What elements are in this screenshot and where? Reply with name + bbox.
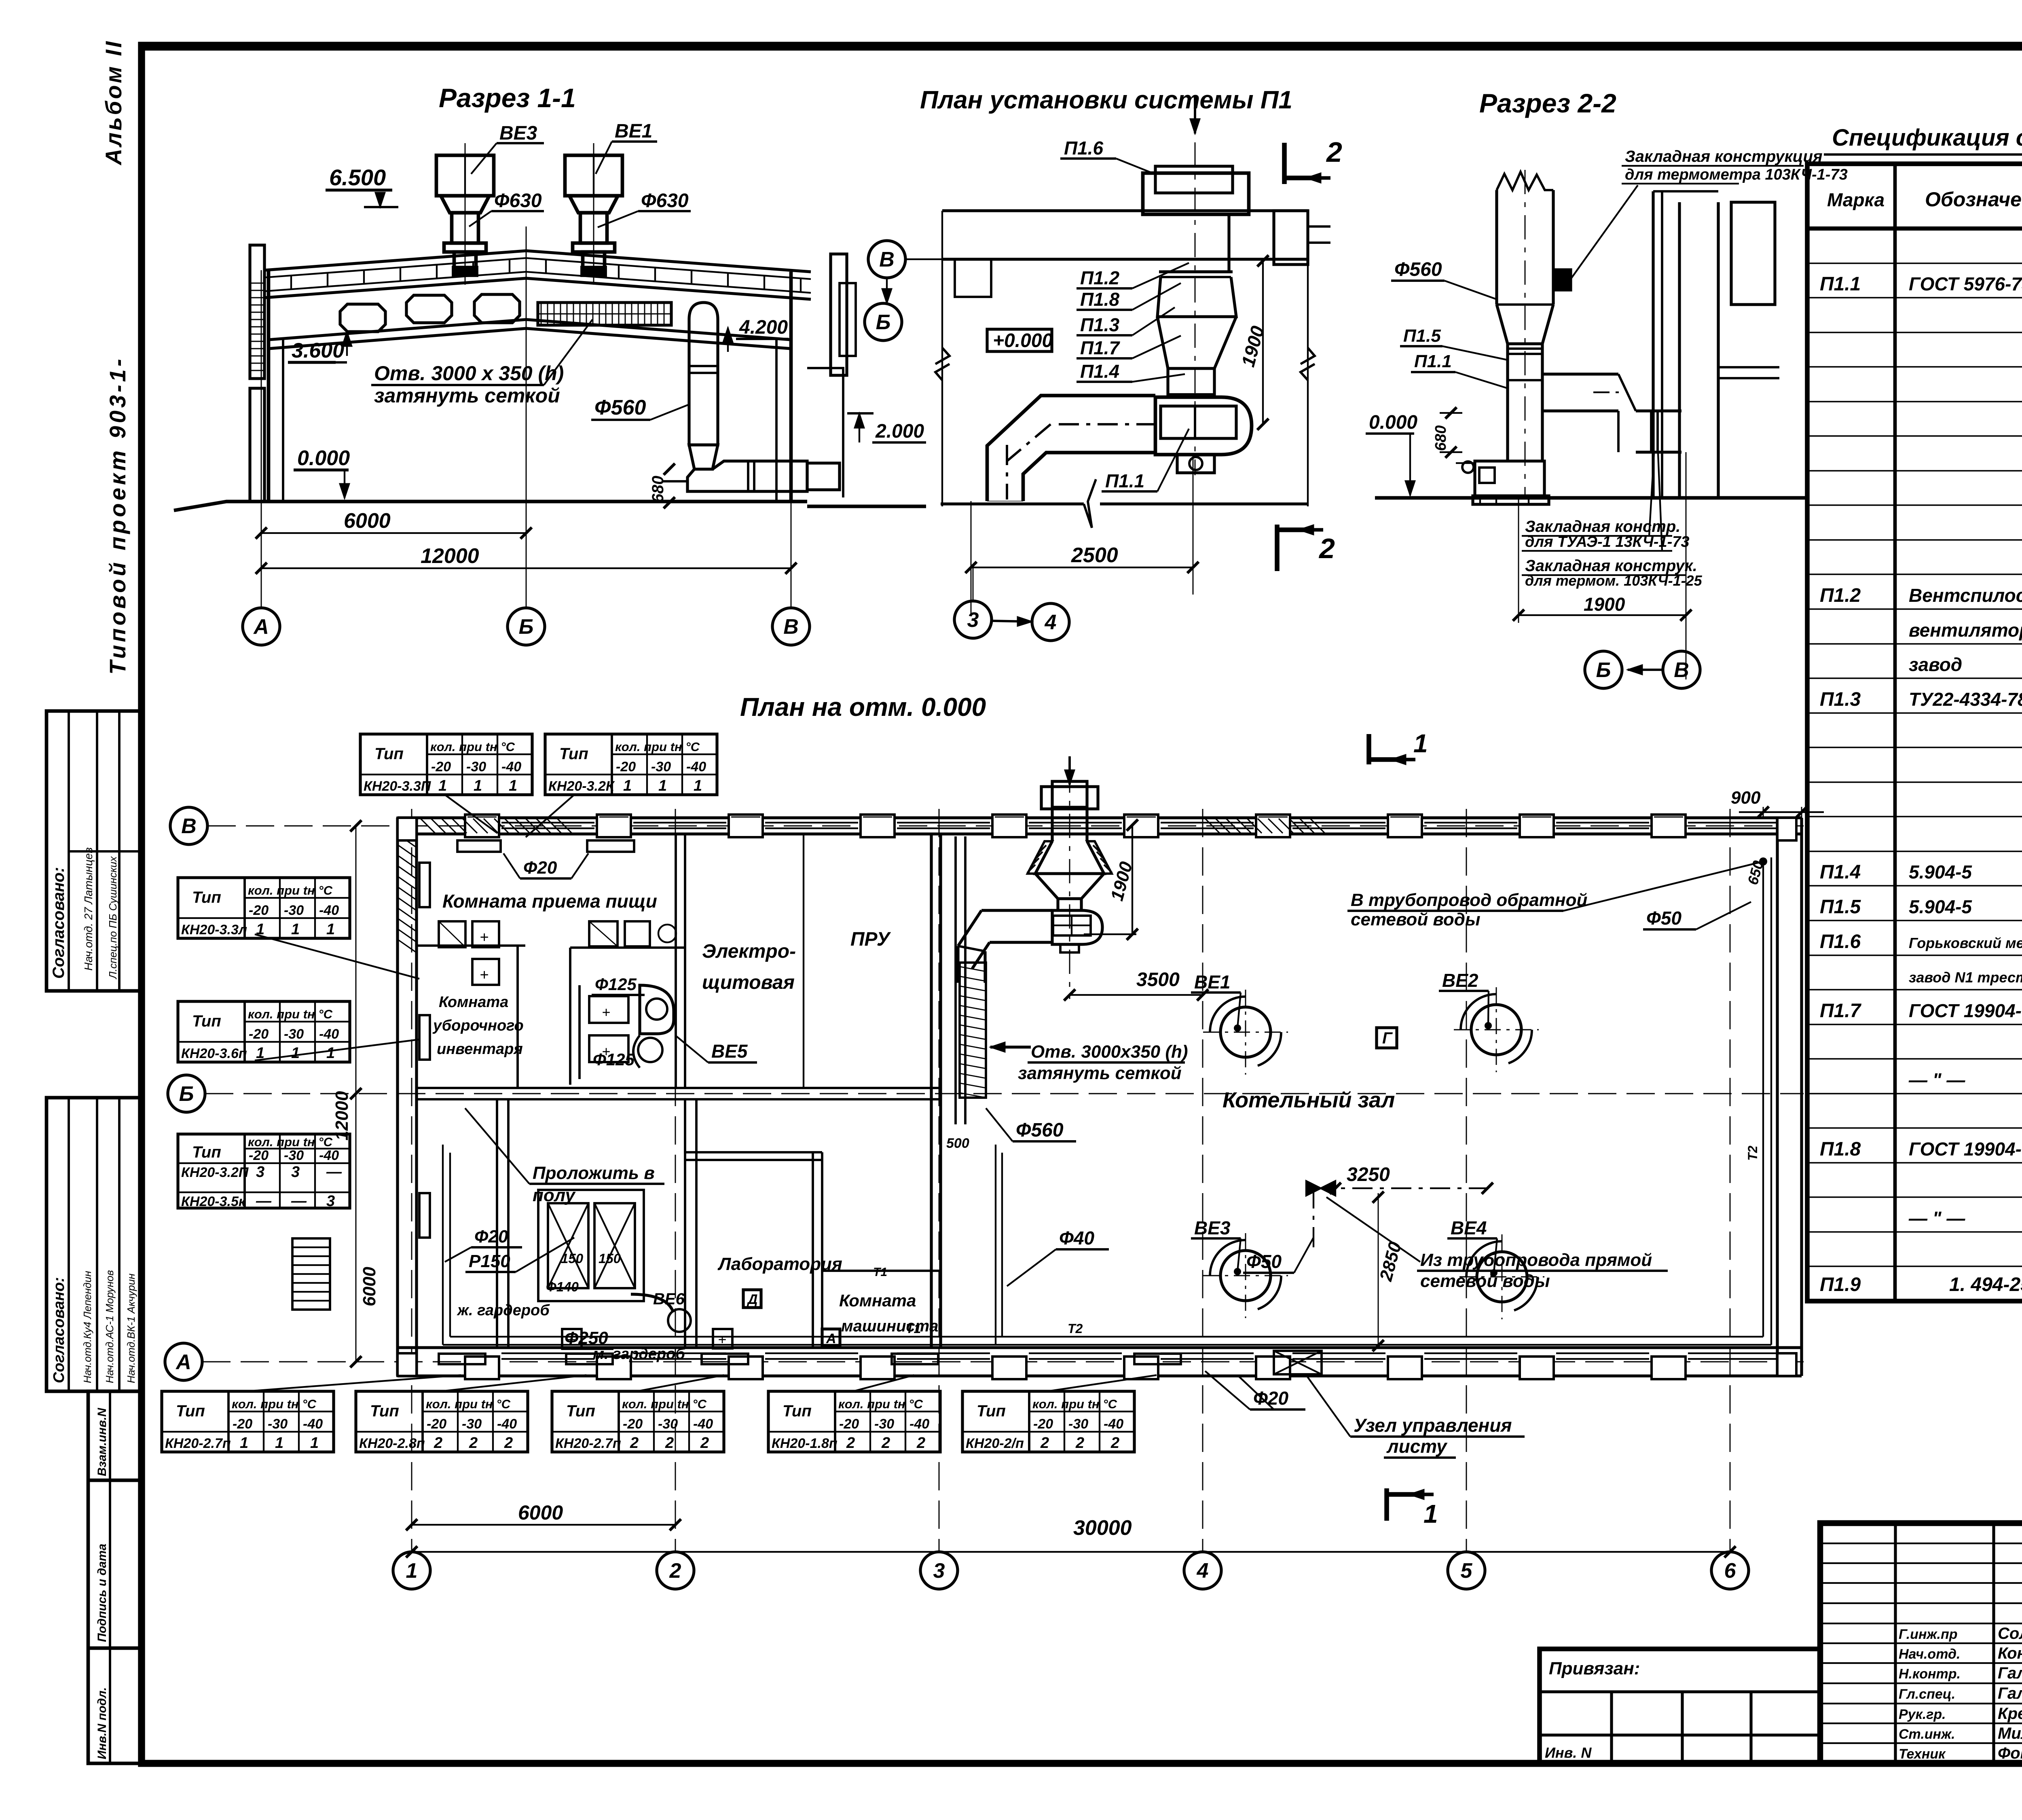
svg-text:Ф125: Ф125: [595, 975, 637, 994]
svg-text:Лаборатория: Лаборатория: [717, 1254, 842, 1274]
svg-text:П1.4: П1.4: [1820, 861, 1861, 883]
svg-text:2: 2: [1318, 533, 1335, 564]
svg-text:КН20-2.7п: КН20-2.7п: [555, 1436, 621, 1451]
svg-text:Б: Б: [519, 615, 534, 639]
svg-text:Подпись и дата: Подпись и дата: [95, 1544, 109, 1642]
svg-text:2: 2: [1040, 1435, 1049, 1452]
svg-text:кол. при tн °С: кол. при tн °С: [430, 740, 515, 754]
svg-text:кол. при tн °С: кол. при tн °С: [248, 1135, 333, 1149]
svg-text:Б: Б: [876, 311, 891, 334]
svg-text:2: 2: [665, 1435, 674, 1452]
svg-text:Л.спец.по ПБ Сушинских: Л.спец.по ПБ Сушинских: [107, 856, 119, 980]
svg-text:Инв.N подл.: Инв.N подл.: [95, 1687, 109, 1759]
svg-text:Тип: Тип: [977, 1402, 1006, 1420]
svg-text:12000: 12000: [421, 544, 479, 568]
svg-text:План установки системы П1: План установки системы П1: [920, 86, 1292, 114]
svg-text:—: —: [326, 1164, 342, 1181]
svg-text:Ф125: Ф125: [593, 1050, 635, 1069]
svg-text:для термометра 103КЧ-1-73: для термометра 103КЧ-1-73: [1625, 166, 1848, 183]
svg-text:для ТУАЭ-1 13КЧ-1-73: для ТУАЭ-1 13КЧ-1-73: [1525, 533, 1690, 550]
svg-text:2: 2: [669, 1559, 681, 1583]
svg-text:P150: P150: [469, 1251, 510, 1271]
svg-text:П1.1: П1.1: [1820, 273, 1861, 295]
svg-text:П1.6: П1.6: [1064, 138, 1103, 159]
svg-text:Ф50: Ф50: [1646, 908, 1681, 929]
svg-text:листу: листу: [1386, 1436, 1448, 1457]
svg-text:-40: -40: [693, 1416, 713, 1432]
svg-text:КН20-2.8п: КН20-2.8п: [359, 1436, 425, 1451]
svg-text:+: +: [718, 1331, 726, 1348]
svg-text:Обозначение: Обозначение: [1925, 188, 2022, 211]
svg-text:КН20-3.2К: КН20-3.2К: [548, 779, 615, 794]
svg-text:3500: 3500: [1136, 969, 1180, 990]
svg-text:1: 1: [291, 921, 300, 938]
svg-text:Ф140: Ф140: [546, 1279, 579, 1294]
svg-text:Милова: Милова: [1998, 1725, 2022, 1742]
svg-text:2: 2: [1326, 136, 1342, 168]
svg-text:1: 1: [658, 777, 667, 794]
svg-text:680: 680: [1432, 425, 1449, 451]
svg-text:Т2: Т2: [1745, 1145, 1760, 1161]
svg-text:1: 1: [1423, 1499, 1438, 1528]
svg-text:уборочного: уборочного: [432, 1017, 524, 1034]
svg-text:4: 4: [1045, 611, 1057, 634]
svg-text:сетевой воды: сетевой воды: [1420, 1271, 1550, 1291]
svg-text:Д: Д: [747, 1292, 758, 1307]
svg-text:3: 3: [291, 1164, 300, 1181]
svg-text:680: 680: [649, 476, 667, 503]
svg-text:+: +: [567, 1331, 575, 1348]
svg-text:ВЕ2: ВЕ2: [1442, 970, 1478, 991]
svg-text:Альбом II: Альбом II: [101, 39, 126, 166]
svg-text:Тип: Тип: [192, 889, 221, 906]
svg-text:1: 1: [240, 1435, 248, 1452]
svg-text:1: 1: [406, 1559, 418, 1583]
svg-text:Тип: Тип: [559, 745, 588, 763]
svg-text:КН20-1.8п: КН20-1.8п: [772, 1436, 838, 1451]
svg-text:2: 2: [1110, 1435, 1119, 1452]
svg-text:Спецификация отопительно-венти: Спецификация отопительно-вентиляционных …: [1832, 125, 2022, 151]
svg-text:ГОСТ 19904-74: ГОСТ 19904-74: [1909, 1139, 2022, 1160]
svg-text:1: 1: [438, 777, 447, 794]
svg-text:ГОСТ 19904-74: ГОСТ 19904-74: [1909, 1000, 2022, 1021]
svg-text:3: 3: [326, 1193, 335, 1210]
svg-text:Инв. N: Инв. N: [1545, 1744, 1592, 1761]
svg-text:-20: -20: [1033, 1416, 1053, 1432]
svg-text:П1.1: П1.1: [1105, 470, 1144, 491]
svg-text:кол. при tн °С: кол. при tн °С: [615, 740, 700, 754]
svg-text:6000: 6000: [344, 509, 391, 533]
svg-text:-30: -30: [658, 1416, 678, 1432]
svg-text:Т1: Т1: [906, 1321, 921, 1336]
svg-text:П1.8: П1.8: [1080, 289, 1119, 310]
svg-text:—: —: [291, 1193, 307, 1210]
svg-text:Тип: Тип: [566, 1402, 595, 1420]
svg-text:вентиляторный: вентиляторный: [1909, 620, 2022, 641]
svg-text:Тип: Тип: [783, 1402, 812, 1420]
svg-text:Нач.отд.: Нач.отд.: [1899, 1646, 1960, 1662]
svg-text:1: 1: [326, 1045, 335, 1062]
svg-text:6000: 6000: [360, 1267, 379, 1306]
svg-text:-40: -40: [686, 759, 706, 775]
svg-text:П1.4: П1.4: [1080, 361, 1119, 382]
svg-text:П1.8: П1.8: [1820, 1139, 1861, 1160]
svg-text:Тип: Тип: [374, 745, 404, 763]
svg-text:П1.1: П1.1: [1414, 351, 1452, 371]
svg-text:1: 1: [275, 1435, 283, 1452]
svg-text:Г: Г: [1382, 1029, 1393, 1047]
svg-text:Ф560: Ф560: [594, 396, 646, 419]
svg-text:Узел управления: Узел управления: [1354, 1415, 1512, 1436]
svg-text:ВЕ1: ВЕ1: [1194, 971, 1230, 993]
svg-text:Нач.отд.Ку4 Лепендин: Нач.отд.Ку4 Лепендин: [81, 1271, 93, 1383]
svg-text:Ф20: Ф20: [474, 1227, 508, 1246]
svg-text:Нач.отд. 27 Латынцев: Нач.отд. 27 Латынцев: [82, 847, 95, 971]
svg-text:6.500: 6.500: [329, 165, 386, 190]
svg-text:Креймер: Креймер: [1998, 1705, 2022, 1723]
svg-text:-30: -30: [284, 1026, 304, 1042]
svg-text:для термом. 103КЧ-1-25: для термом. 103КЧ-1-25: [1525, 572, 1703, 589]
svg-text:П1.2: П1.2: [1080, 267, 1119, 288]
svg-text:-30: -30: [268, 1416, 288, 1432]
svg-text:Из трубопровода прямой: Из трубопровода прямой: [1420, 1250, 1652, 1270]
svg-text:кол. при tн °С: кол. при tн °С: [426, 1397, 511, 1411]
svg-text:Согласовано:: Согласовано:: [51, 1277, 68, 1383]
svg-text:-30: -30: [1068, 1416, 1088, 1432]
svg-text:-30: -30: [466, 759, 486, 775]
svg-text:2.000: 2.000: [875, 421, 924, 442]
svg-text:Проложить в: Проложить в: [533, 1163, 655, 1183]
svg-text:А: А: [253, 615, 269, 639]
svg-text:-20: -20: [249, 1148, 269, 1163]
svg-text:затянуть сеткой: затянуть сеткой: [374, 384, 560, 407]
svg-text:Рук.гр.: Рук.гр.: [1899, 1707, 1946, 1722]
svg-text:Разрез 1-1: Разрез 1-1: [439, 83, 576, 113]
svg-text:5: 5: [1461, 1559, 1473, 1583]
svg-text:Разрез 2-2: Разрез 2-2: [1479, 88, 1616, 118]
svg-text:4.200: 4.200: [739, 317, 788, 338]
svg-text:П1.2: П1.2: [1820, 585, 1861, 606]
svg-text:П1.5: П1.5: [1403, 326, 1441, 346]
svg-text:Техник: Техник: [1899, 1746, 1946, 1762]
svg-text:2: 2: [434, 1435, 442, 1452]
svg-text:-30: -30: [462, 1416, 482, 1432]
svg-text:П1.9: П1.9: [1820, 1274, 1861, 1295]
svg-text:1: 1: [291, 1045, 300, 1062]
svg-text:0.000: 0.000: [1369, 412, 1417, 433]
svg-text:П1.7: П1.7: [1080, 337, 1120, 358]
svg-text:-20: -20: [623, 1416, 643, 1432]
svg-text:Ф50: Ф50: [1246, 1251, 1282, 1272]
svg-text:А: А: [175, 1350, 191, 1374]
svg-text:В: В: [879, 248, 895, 271]
svg-text:-40: -40: [1104, 1416, 1123, 1432]
svg-text:Тип: Тип: [176, 1402, 205, 1420]
svg-text:30000: 30000: [1073, 1516, 1132, 1540]
svg-text:500: 500: [946, 1136, 969, 1151]
svg-text:Т1: Т1: [873, 1266, 887, 1279]
svg-text:6000: 6000: [518, 1501, 563, 1524]
svg-text:2: 2: [630, 1435, 639, 1452]
svg-text:-20: -20: [249, 1026, 269, 1042]
svg-text:КН20-3.3л: КН20-3.3л: [181, 922, 247, 938]
svg-text:Нач.отд.АС-1 Морунов: Нач.отд.АС-1 Морунов: [104, 1270, 116, 1383]
svg-text:щитовая: щитовая: [702, 972, 795, 993]
svg-text:В трубопровод обратной: В трубопровод обратной: [1351, 890, 1587, 910]
svg-text:В: В: [783, 615, 799, 639]
svg-text:Ф560: Ф560: [1394, 259, 1442, 280]
svg-text:Гл.спец.: Гл.спец.: [1899, 1687, 1955, 1702]
svg-text:КН20-2/п: КН20-2/п: [966, 1436, 1024, 1451]
svg-text:КН20-3.2П: КН20-3.2П: [181, 1165, 249, 1180]
svg-text:1: 1: [326, 921, 335, 938]
svg-text:-30: -30: [651, 759, 671, 775]
svg-text:1: 1: [623, 777, 632, 794]
svg-text:1: 1: [509, 777, 517, 794]
svg-text:-20: -20: [233, 1416, 252, 1432]
svg-text:полу: полу: [533, 1185, 576, 1205]
svg-text:-40: -40: [497, 1416, 517, 1432]
svg-text:-40: -40: [319, 903, 339, 918]
svg-text:12000: 12000: [332, 1091, 352, 1141]
svg-text:ПРУ: ПРУ: [850, 929, 891, 950]
svg-text:Марка: Марка: [1827, 189, 1885, 210]
svg-text:-20: -20: [431, 759, 451, 775]
svg-text:КН20-3.6п: КН20-3.6п: [181, 1046, 247, 1061]
svg-text:3.600: 3.600: [292, 339, 344, 362]
svg-text:кол. при tн °С: кол. при tн °С: [1032, 1397, 1117, 1411]
svg-text:1: 1: [1413, 729, 1428, 758]
svg-text:Галкина: Галкина: [1998, 1685, 2022, 1702]
svg-text:-40: -40: [909, 1416, 929, 1432]
svg-text:завод N1 треста,,Сантехдеталь: завод N1 треста,,Сантехдеталь: [1909, 969, 2022, 986]
svg-text:2: 2: [504, 1435, 513, 1452]
svg-text:кол. при tн °С: кол. при tн °С: [622, 1397, 707, 1411]
svg-text:Гальина: Гальина: [1998, 1664, 2022, 1682]
svg-text:Комната: Комната: [439, 994, 508, 1011]
svg-text:ГОСТ 5976-73: ГОСТ 5976-73: [1909, 273, 2022, 294]
svg-text:Привязан:: Привязан:: [1549, 1659, 1640, 1678]
svg-text:ВЕ1: ВЕ1: [615, 121, 652, 142]
svg-text:3: 3: [967, 608, 979, 632]
svg-text:2: 2: [916, 1435, 925, 1452]
svg-text:Ф560: Ф560: [1016, 1120, 1064, 1141]
svg-text:+0.000: +0.000: [993, 330, 1053, 351]
svg-text:Горьковский механический: Горьковский механический: [1909, 935, 2022, 951]
svg-text:900: 900: [1731, 788, 1761, 808]
svg-text:В: В: [1674, 658, 1689, 682]
svg-text:Ф630: Ф630: [641, 190, 689, 212]
svg-text:Ф630: Ф630: [494, 190, 542, 212]
svg-text:-40: -40: [501, 759, 521, 775]
svg-text:3: 3: [933, 1559, 945, 1583]
svg-text:завод: завод: [1909, 654, 1962, 675]
svg-text:Электро-: Электро-: [702, 941, 796, 962]
svg-text:150: 150: [599, 1251, 621, 1266]
svg-text:2: 2: [469, 1435, 478, 1452]
svg-text:ВЕ3: ВЕ3: [499, 123, 537, 144]
svg-text:П1.6: П1.6: [1820, 931, 1861, 952]
svg-text:1900: 1900: [1584, 594, 1625, 615]
svg-text:— " —: — " —: [1908, 1208, 1965, 1229]
svg-text:Тип: Тип: [192, 1012, 221, 1030]
svg-text:1. 494-25: 1. 494-25: [1949, 1274, 2022, 1295]
svg-text:П1.3: П1.3: [1080, 314, 1119, 335]
svg-text:Н.контр.: Н.контр.: [1899, 1666, 1961, 1682]
svg-text:сетевой воды: сетевой воды: [1351, 910, 1481, 929]
svg-text:Соловьев: Соловьев: [1998, 1625, 2022, 1642]
svg-text:Б: Б: [1596, 658, 1611, 682]
svg-text:ТУ22-4334-78: ТУ22-4334-78: [1909, 689, 2022, 710]
svg-text:Котельный зал: Котельный зал: [1223, 1088, 1395, 1112]
svg-text:2500: 2500: [1071, 544, 1118, 567]
svg-text:П1.5: П1.5: [1820, 896, 1861, 918]
svg-text:Закладная констр.: Закладная констр.: [1525, 518, 1680, 535]
svg-text:кол. при tн °С: кол. при tн °С: [232, 1397, 317, 1411]
svg-text:0.000: 0.000: [297, 447, 350, 470]
svg-text:Вентспилоский: Вентспилоский: [1909, 585, 2022, 606]
svg-text:Отв. 3000 х 350 (h): Отв. 3000 х 350 (h): [374, 362, 564, 385]
svg-text:Б: Б: [179, 1082, 194, 1106]
svg-text:КН20-2.7п: КН20-2.7п: [165, 1436, 231, 1451]
svg-text:машиниста: машиниста: [841, 1317, 939, 1335]
svg-text:инвентаря: инвентаря: [437, 1041, 523, 1058]
svg-text:3250: 3250: [1347, 1164, 1390, 1185]
svg-text:План на отм. 0.000: План на отм. 0.000: [740, 692, 986, 722]
svg-text:Ст.инж.: Ст.инж.: [1899, 1727, 1955, 1742]
svg-text:Г.инж.пр: Г.инж.пр: [1899, 1627, 1958, 1642]
svg-text:+: +: [480, 929, 489, 946]
svg-text:— " —: — " —: [1908, 1069, 1965, 1090]
svg-text:кол. при tн °С: кол. при tн °С: [838, 1397, 923, 1411]
svg-text:-30: -30: [874, 1416, 894, 1432]
svg-text:Тип: Тип: [370, 1402, 399, 1420]
svg-text:кол. при tн °С: кол. при tн °С: [248, 1007, 333, 1021]
svg-text:Фокеева: Фокеева: [1998, 1744, 2022, 1762]
svg-text:ж. гардероб: ж. гардероб: [457, 1302, 550, 1319]
svg-text:затянуть сеткой: затянуть сеткой: [1018, 1063, 1182, 1083]
svg-text:Ф20: Ф20: [523, 858, 557, 878]
svg-text:+: +: [480, 967, 489, 984]
svg-text:Согласовано:: Согласовано:: [50, 867, 68, 979]
svg-text:кол. при tн °С: кол. при tн °С: [248, 883, 333, 897]
svg-text:Отв. 3000х350 (h): Отв. 3000х350 (h): [1031, 1042, 1188, 1062]
svg-text:КН20-3.5к: КН20-3.5к: [181, 1194, 246, 1209]
svg-text:-20: -20: [616, 759, 636, 775]
svg-text:Ф40: Ф40: [1059, 1227, 1094, 1249]
svg-text:-20: -20: [839, 1416, 859, 1432]
svg-text:Закладная конструкция: Закладная конструкция: [1625, 148, 1823, 165]
svg-text:—: —: [256, 1193, 272, 1210]
svg-text:В: В: [181, 815, 197, 838]
svg-text:4: 4: [1197, 1559, 1209, 1583]
svg-text:ВЕ3: ВЕ3: [1194, 1217, 1231, 1238]
svg-text:-20: -20: [249, 903, 269, 918]
svg-text:-20: -20: [427, 1416, 446, 1432]
svg-text:-40: -40: [319, 1026, 339, 1042]
svg-text:1: 1: [694, 777, 702, 794]
svg-text:ВЕ4: ВЕ4: [1451, 1217, 1487, 1238]
svg-text:2: 2: [700, 1435, 709, 1452]
svg-text:-30: -30: [284, 1148, 304, 1163]
svg-text:1: 1: [474, 777, 482, 794]
svg-text:-40: -40: [303, 1416, 323, 1432]
svg-text:150: 150: [561, 1251, 584, 1266]
svg-text:2: 2: [1075, 1435, 1084, 1452]
svg-text:6: 6: [1724, 1559, 1736, 1583]
svg-text:2: 2: [881, 1435, 890, 1452]
svg-text:5.904-5: 5.904-5: [1909, 896, 1972, 917]
svg-text:Взам.инв.N: Взам.инв.N: [95, 1407, 109, 1476]
svg-text:Комната приема пищи: Комната приема пищи: [442, 891, 657, 912]
svg-text:1: 1: [310, 1435, 319, 1452]
svg-text:П1.3: П1.3: [1820, 689, 1861, 710]
svg-text:Комната: Комната: [839, 1291, 916, 1310]
svg-text:ВЕ5: ВЕ5: [711, 1041, 748, 1062]
svg-text:КН20-3.3П: КН20-3.3П: [364, 779, 431, 794]
svg-text:2: 2: [846, 1435, 855, 1452]
svg-text:Нач.отд.ВК-1 Акчурин: Нач.отд.ВК-1 Акчурин: [125, 1274, 137, 1383]
svg-text:Т2: Т2: [1068, 1321, 1083, 1336]
svg-text:П1.7: П1.7: [1820, 1000, 1862, 1022]
svg-text:3: 3: [256, 1164, 264, 1181]
svg-text:Типовой проект 903-1-: Типовой проект 903-1-: [105, 356, 130, 675]
svg-text:+: +: [602, 1004, 610, 1020]
svg-text:-40: -40: [319, 1148, 339, 1163]
svg-text:Конкин: Конкин: [1998, 1644, 2022, 1662]
svg-text:-30: -30: [284, 903, 304, 918]
svg-text:5.904-5: 5.904-5: [1909, 861, 1972, 882]
svg-text:Тип: Тип: [192, 1143, 221, 1161]
